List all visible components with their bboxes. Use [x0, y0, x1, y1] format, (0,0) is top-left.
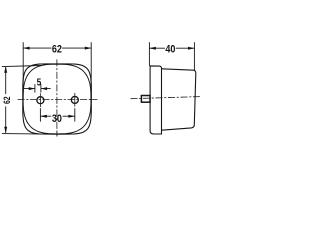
wire side-view lens profile — [150, 66, 161, 134]
dimension 62 top: left arrow — [23, 47, 29, 50]
svg-text:40: 40 — [165, 44, 175, 56]
node centerline tick at front-view bottom edge crossing — [56, 131, 58, 136]
node mounting hole left — [37, 97, 44, 104]
dimension 62 top: extension lines — [23, 43, 91, 99]
node mounting hole right — [71, 96, 78, 103]
dimension 40: dimension line — [149, 47, 164, 49]
node hole left center tick — [39, 94, 41, 107]
dimension 30: dimension line — [40, 115, 50, 117]
dimension 62 left: extension lines — [2, 66, 47, 135]
svg-text:62: 62 — [2, 96, 12, 104]
dimension 30: extension lines — [40, 109, 74, 122]
svg-text:62: 62 — [52, 44, 62, 56]
dimension 5: extension ticks — [24, 85, 50, 93]
wire front-view inner lens outline — [23, 64, 91, 134]
dimension 62 left: bottom arrow — [4, 127, 7, 133]
dimension 30: right arrow — [68, 115, 74, 118]
dimension 62 left: top arrow — [4, 66, 7, 72]
wire front-view outer outline — [23, 64, 92, 134]
node hole right center tick — [74, 93, 76, 106]
node side-view mounting tab — [141, 96, 150, 103]
dimension 40: extension lines — [149, 43, 194, 70]
dimension 30: left arrow — [40, 115, 46, 118]
svg-text:30: 30 — [52, 113, 62, 125]
node front-view horizontal centerline — [18, 99, 97, 101]
node front-view vertical centerline — [56, 60, 58, 137]
wire side-view body outline — [162, 69, 196, 130]
dimension 40: right arrow — [188, 47, 194, 50]
dimension 5: left arrow — [29, 87, 35, 90]
dimension 5: right arrow — [41, 87, 47, 90]
dimension 40: left arrow — [149, 47, 155, 50]
dimension 62 left: dimension line — [5, 67, 7, 94]
dimension 62 top: dimension line — [23, 47, 51, 49]
wire side-view lens/body joint line — [161, 69, 163, 134]
wire side-view lens top step — [160, 66, 162, 69]
dimension 5: arrow tails — [24, 88, 35, 90]
svg-text:5: 5 — [37, 77, 42, 89]
node side-view horizontal centerline — [131, 97, 200, 99]
node centerline tick at front-view right edge crossing — [90, 99, 92, 101]
dimension 62 top: right arrow — [85, 47, 91, 50]
